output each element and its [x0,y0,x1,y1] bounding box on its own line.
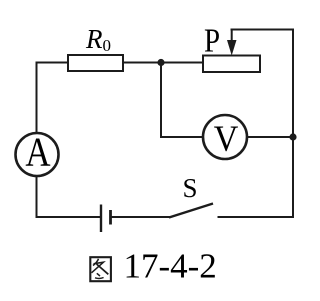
wire top-left horizontal [36,62,69,64]
wire voltmeter branch right [248,136,294,138]
svg-text:V: V [214,118,239,160]
battery short plate [109,210,112,225]
caption hanzi tu inner strokes [93,259,99,266]
rheostat wiper arrowhead [227,40,237,56]
rheostat P body [203,56,260,73]
junction node left [157,59,164,66]
junction node right [289,133,296,140]
voltmeter V1 circle [203,115,247,159]
caption hanzi tu outer box [90,257,111,281]
switch S blade [169,204,213,218]
wire bottom right horizontal [218,216,295,218]
battery long plate [100,205,102,233]
wire rheostat wiper stem [231,30,233,44]
wire junction down to voltmeter branch [160,63,162,138]
wire top horizontal [231,29,295,31]
svg-text:P: P [204,21,220,59]
wire right vertical [292,29,294,219]
svg-text:S: S [183,173,198,203]
wire resistor to junction [123,62,161,64]
wire left vertical upper [36,62,38,133]
wire bottom left horizontal [36,216,101,218]
wire battery to switch [112,216,171,218]
resistor R0 [68,55,123,71]
svg-text:17-4-2: 17-4-2 [124,247,217,286]
svg-text:A: A [25,130,51,175]
wire left vertical lower [36,177,38,218]
wire voltmeter branch left [160,136,203,138]
ammeter A1 circle [16,133,59,176]
wire junction to rheostat [161,62,203,64]
